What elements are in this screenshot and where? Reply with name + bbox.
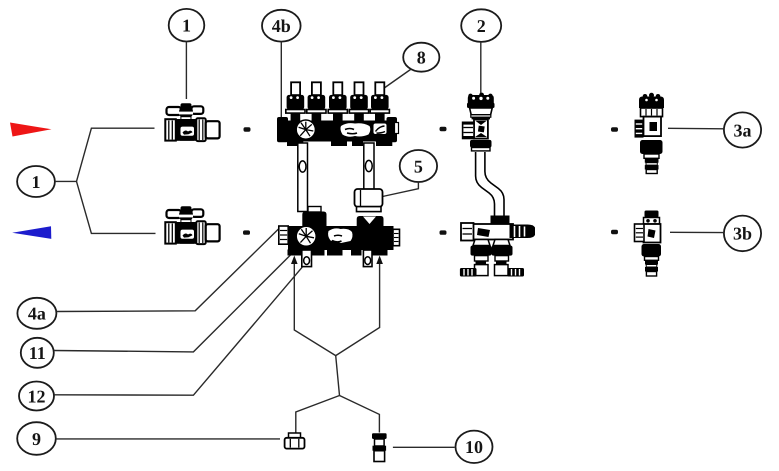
- red flow arrow (supply): [10, 123, 52, 137]
- callout 1 (left): [17, 166, 55, 197]
- leader from callout 12 to drain port: [54, 267, 302, 395]
- male thread end: [206, 121, 220, 138]
- left end nut: [279, 226, 288, 244]
- return manifold (items 4a/11/12): [279, 207, 400, 267]
- svg-text:11: 11: [29, 343, 46, 363]
- svg-text:1: 1: [32, 172, 41, 192]
- leader from fitting 3a to callout 3a: [668, 127, 724, 130]
- ball valve item 1 (bottom): [165, 206, 219, 244]
- valve stem: [180, 115, 191, 122]
- coupler sleeve item 5: [355, 189, 383, 212]
- leader from callout 1 top to ball valve: [185, 42, 187, 99]
- separator dash between manifold and item 2 (bottom row): [440, 230, 447, 234]
- leader from fitting 10 to callout 10: [393, 446, 455, 448]
- separator dash between manifold and item 2 (top row): [440, 127, 447, 131]
- bar: [288, 226, 394, 250]
- svg-text:4b: 4b: [272, 16, 291, 36]
- callout 10: [456, 431, 493, 463]
- plug nut item 9: [285, 433, 305, 449]
- left top hat: [302, 212, 326, 227]
- separator dash before 3a: [611, 127, 618, 131]
- S-curve pipe of item 2: [476, 152, 504, 216]
- leader from callout 8 to 5th manifold valve: [384, 70, 411, 89]
- callout 11: [21, 338, 54, 368]
- callout 2: [461, 9, 501, 42]
- separator dash between valve 1 and manifold (bottom row): [243, 230, 250, 234]
- callout 5: [400, 150, 437, 182]
- leader from callout 4b down to manifold end: [280, 42, 282, 141]
- top cap with dots: [468, 94, 472, 98]
- callout 1 (top): [169, 9, 205, 42]
- right end nut: [393, 229, 400, 245]
- leader from callout 11 to manifold foot: [54, 255, 291, 352]
- leader from fitting 3b to callout 3b: [670, 231, 724, 233]
- leader from callout 9 to plug nut: [56, 438, 280, 440]
- fitting item 10: [372, 433, 387, 461]
- flow arrowhead left drain: [291, 256, 298, 265]
- left branch: [473, 240, 490, 246]
- svg-text:5: 5: [414, 156, 423, 176]
- flow arrowhead right drain: [376, 256, 383, 265]
- white label patch middle: [341, 123, 371, 137]
- union nut: [196, 118, 205, 141]
- svg-text:8: 8: [417, 48, 426, 68]
- tapered collar: [470, 108, 493, 115]
- bottom nut: [470, 140, 492, 148]
- valve body: [174, 119, 197, 141]
- bracket from callout 1 left to both ball valves: [55, 128, 156, 233]
- right drain port: [363, 250, 372, 267]
- svg-text:9: 9: [32, 429, 41, 449]
- callout 4a: [17, 298, 56, 329]
- handle right wing: [192, 106, 204, 114]
- separator dash before 3b: [611, 230, 618, 234]
- fitting item 3b: [635, 211, 662, 277]
- horizontal bar: [464, 224, 514, 240]
- leader from callout 2 down to valve cap: [480, 42, 482, 94]
- feet under top manifold: [287, 140, 303, 146]
- collar under pipe: [491, 216, 510, 227]
- separator dash between valve 1 and manifold (top row): [244, 127, 251, 131]
- white middle patch: [328, 228, 352, 243]
- flow-meter manifold (item 4b) valve stems: [286, 82, 390, 121]
- right male cone: [510, 225, 536, 239]
- fitting item 3a: [635, 93, 665, 174]
- callout 9: [17, 422, 56, 455]
- handle left wing: [167, 107, 182, 115]
- svg-text:3a: 3a: [734, 120, 752, 140]
- handle hub: [181, 103, 192, 108]
- callout 3b: [724, 216, 761, 252]
- svg-text:2: 2: [477, 16, 486, 36]
- blue flow arrow (return): [12, 226, 51, 239]
- svg-text:10: 10: [465, 437, 483, 457]
- svg-text:4a: 4a: [28, 304, 46, 324]
- left drain port: [302, 250, 312, 267]
- flow gauge on top manifold: [296, 120, 315, 139]
- side nut: [463, 122, 474, 138]
- callout 8: [403, 43, 439, 72]
- left riser pipe between manifolds: [298, 143, 308, 212]
- flow-meter manifold bar (item 4b): [277, 117, 399, 146]
- feet under return manifold: [288, 250, 302, 256]
- callout 3a: [724, 112, 761, 147]
- Y connector lines from manifold drains to items 9 and 10: [294, 262, 379, 433]
- svg-text:1: 1: [182, 16, 191, 36]
- valve body: [474, 119, 488, 138]
- bottom tee assembly of item 2: [460, 216, 535, 277]
- right top hat: [357, 216, 384, 227]
- ball valve item 1 (top): [165, 103, 219, 141]
- white mark right: [374, 124, 387, 135]
- angle valve assembly item 2 (top): [462, 93, 494, 151]
- leader from callout 5 to coupler sleeve: [383, 182, 419, 196]
- right branch: [493, 240, 510, 246]
- callout 12: [19, 382, 54, 411]
- leader from callout 4a to manifold end nut: [56, 229, 278, 312]
- callout 4b: [262, 10, 301, 42]
- gauge on return manifold: [296, 226, 316, 246]
- svg-text:12: 12: [28, 386, 46, 406]
- svg-text:3b: 3b: [733, 224, 752, 244]
- right riser pipe between manifolds: [364, 143, 374, 190]
